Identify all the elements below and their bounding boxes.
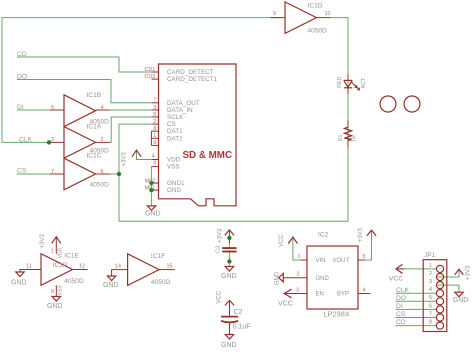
svg-text:1K: 1K <box>351 135 357 142</box>
svg-text:DO: DO <box>396 295 406 302</box>
svg-text:CS: CS <box>396 311 406 318</box>
svg-text:GND1: GND1 <box>167 180 185 187</box>
svg-text:DAT1: DAT1 <box>167 128 183 135</box>
svg-text:2: 2 <box>101 137 104 143</box>
svg-text:3: 3 <box>51 137 54 143</box>
svg-text:2: 2 <box>429 271 432 277</box>
svg-text:7: 7 <box>429 311 432 317</box>
svg-text:+3V3: +3V3 <box>358 227 364 242</box>
svg-text:+3V3: +3V3 <box>40 234 46 249</box>
svg-text:4: 4 <box>363 287 366 293</box>
svg-text:7: 7 <box>51 169 54 175</box>
svg-text:IC1D: IC1D <box>308 3 323 10</box>
svg-text:LP298X: LP298X <box>324 310 350 319</box>
svg-text:3: 3 <box>429 279 432 285</box>
svg-text:9: 9 <box>273 11 276 17</box>
svg-text:VIN: VIN <box>316 258 326 264</box>
svg-text:CARD_DETECT: CARD_DETECT <box>167 69 214 76</box>
svg-text:IC1A: IC1A <box>87 124 102 131</box>
svg-text:3: 3 <box>296 287 299 293</box>
svg-text:DATA_OUT: DATA_OUT <box>167 100 200 107</box>
svg-text:CARD_DETECT1: CARD_DETECT1 <box>167 76 218 83</box>
svg-text:GND: GND <box>47 303 63 310</box>
svg-text:IC2: IC2 <box>318 232 329 239</box>
svg-text:C2: C2 <box>234 309 243 316</box>
svg-text:ACT: ACT <box>361 77 367 88</box>
svg-text:+3V3: +3V3 <box>121 152 127 167</box>
svg-text:4: 4 <box>429 287 432 293</box>
svg-text:VSS: VSS <box>57 285 63 296</box>
svg-text:2: 2 <box>153 119 156 125</box>
svg-text:4050D: 4050D <box>90 181 110 188</box>
svg-text:CLK: CLK <box>19 137 33 144</box>
svg-text:VCC: VCC <box>278 300 293 307</box>
svg-text:GND: GND <box>316 276 330 282</box>
svg-text:4050D: 4050D <box>308 28 328 35</box>
svg-text:IC1E: IC1E <box>64 253 79 260</box>
svg-text:CD2: CD2 <box>145 74 156 80</box>
svg-text:CD: CD <box>396 319 406 326</box>
svg-text:IC1P: IC1P <box>53 262 68 269</box>
svg-text:GND: GND <box>221 273 237 280</box>
svg-text:4050D: 4050D <box>64 278 84 285</box>
svg-text:CD1: CD1 <box>145 67 156 73</box>
svg-text:DI: DI <box>396 303 403 310</box>
svg-text:M01: M01 <box>145 186 156 192</box>
svg-text:GND: GND <box>11 280 27 287</box>
svg-text:14: 14 <box>115 263 121 269</box>
svg-text:0.1uF: 0.1uF <box>233 324 251 331</box>
svg-text:CS: CS <box>17 168 27 175</box>
svg-text:IC1F: IC1F <box>151 253 165 260</box>
svg-text:5: 5 <box>429 295 432 301</box>
svg-text:2: 2 <box>297 272 300 278</box>
svg-text:SD & MMC: SD & MMC <box>183 150 233 161</box>
svg-text:7: 7 <box>153 98 156 104</box>
svg-text:8: 8 <box>51 289 54 295</box>
svg-text:DO: DO <box>17 74 27 81</box>
svg-text:CD: CD <box>17 51 27 58</box>
svg-text:DAT2: DAT2 <box>167 135 183 142</box>
svg-text:GND: GND <box>275 271 281 285</box>
svg-text:12: 12 <box>79 263 85 269</box>
svg-text:5: 5 <box>153 112 156 118</box>
svg-text:GND: GND <box>103 282 119 289</box>
svg-text:IC1B: IC1B <box>87 92 102 99</box>
svg-text:VOUT: VOUT <box>333 258 350 264</box>
svg-text:VDD: VDD <box>167 157 181 164</box>
svg-text:9: 9 <box>153 140 156 146</box>
svg-text:8: 8 <box>153 126 156 132</box>
svg-text:R1: R1 <box>338 135 344 142</box>
svg-text:VSS: VSS <box>167 164 180 171</box>
svg-text:5: 5 <box>51 105 54 111</box>
svg-text:15: 15 <box>167 263 173 269</box>
svg-text:SCLK: SCLK <box>167 114 184 121</box>
svg-text:EN: EN <box>316 292 324 298</box>
svg-text:IC1C: IC1C <box>87 153 102 160</box>
svg-text:VCC: VCC <box>279 234 285 247</box>
svg-text:4050D: 4050D <box>151 279 171 286</box>
svg-text:C3: C3 <box>216 246 222 253</box>
svg-text:1: 1 <box>153 133 156 139</box>
svg-text:4: 4 <box>152 154 155 160</box>
svg-text:VCC: VCC <box>216 290 222 303</box>
svg-text:1: 1 <box>51 249 54 255</box>
svg-text:GND: GND <box>453 297 469 304</box>
svg-text:6: 6 <box>101 169 104 175</box>
svg-text:11: 11 <box>26 263 32 269</box>
svg-text:1: 1 <box>298 254 301 260</box>
svg-text:10: 10 <box>325 11 331 17</box>
svg-text:GND: GND <box>145 211 161 218</box>
svg-text:8: 8 <box>429 320 432 326</box>
svg-text:M02: M02 <box>145 178 156 184</box>
svg-text:JP1: JP1 <box>424 252 436 259</box>
svg-text:+3V3: +3V3 <box>465 265 471 280</box>
svg-text:GND: GND <box>167 187 181 194</box>
svg-text:3: 3 <box>153 105 156 111</box>
svg-text:CS: CS <box>167 121 176 128</box>
svg-text:+3V3: +3V3 <box>218 228 224 243</box>
svg-text:8: 8 <box>153 160 156 166</box>
svg-text:5: 5 <box>363 254 366 260</box>
svg-text:1: 1 <box>429 263 432 269</box>
svg-text:VCC: VCC <box>389 276 403 283</box>
svg-text:GND: GND <box>221 342 237 349</box>
svg-text:VDD: VDD <box>57 247 63 258</box>
svg-text:DI: DI <box>17 104 24 111</box>
svg-text:RED: RED <box>337 77 343 88</box>
svg-text:6: 6 <box>429 303 432 309</box>
svg-text:BYP: BYP <box>337 292 349 298</box>
svg-text:4: 4 <box>101 105 104 111</box>
svg-text:CLK: CLK <box>396 287 410 294</box>
svg-text:DATA_IN: DATA_IN <box>167 107 193 114</box>
